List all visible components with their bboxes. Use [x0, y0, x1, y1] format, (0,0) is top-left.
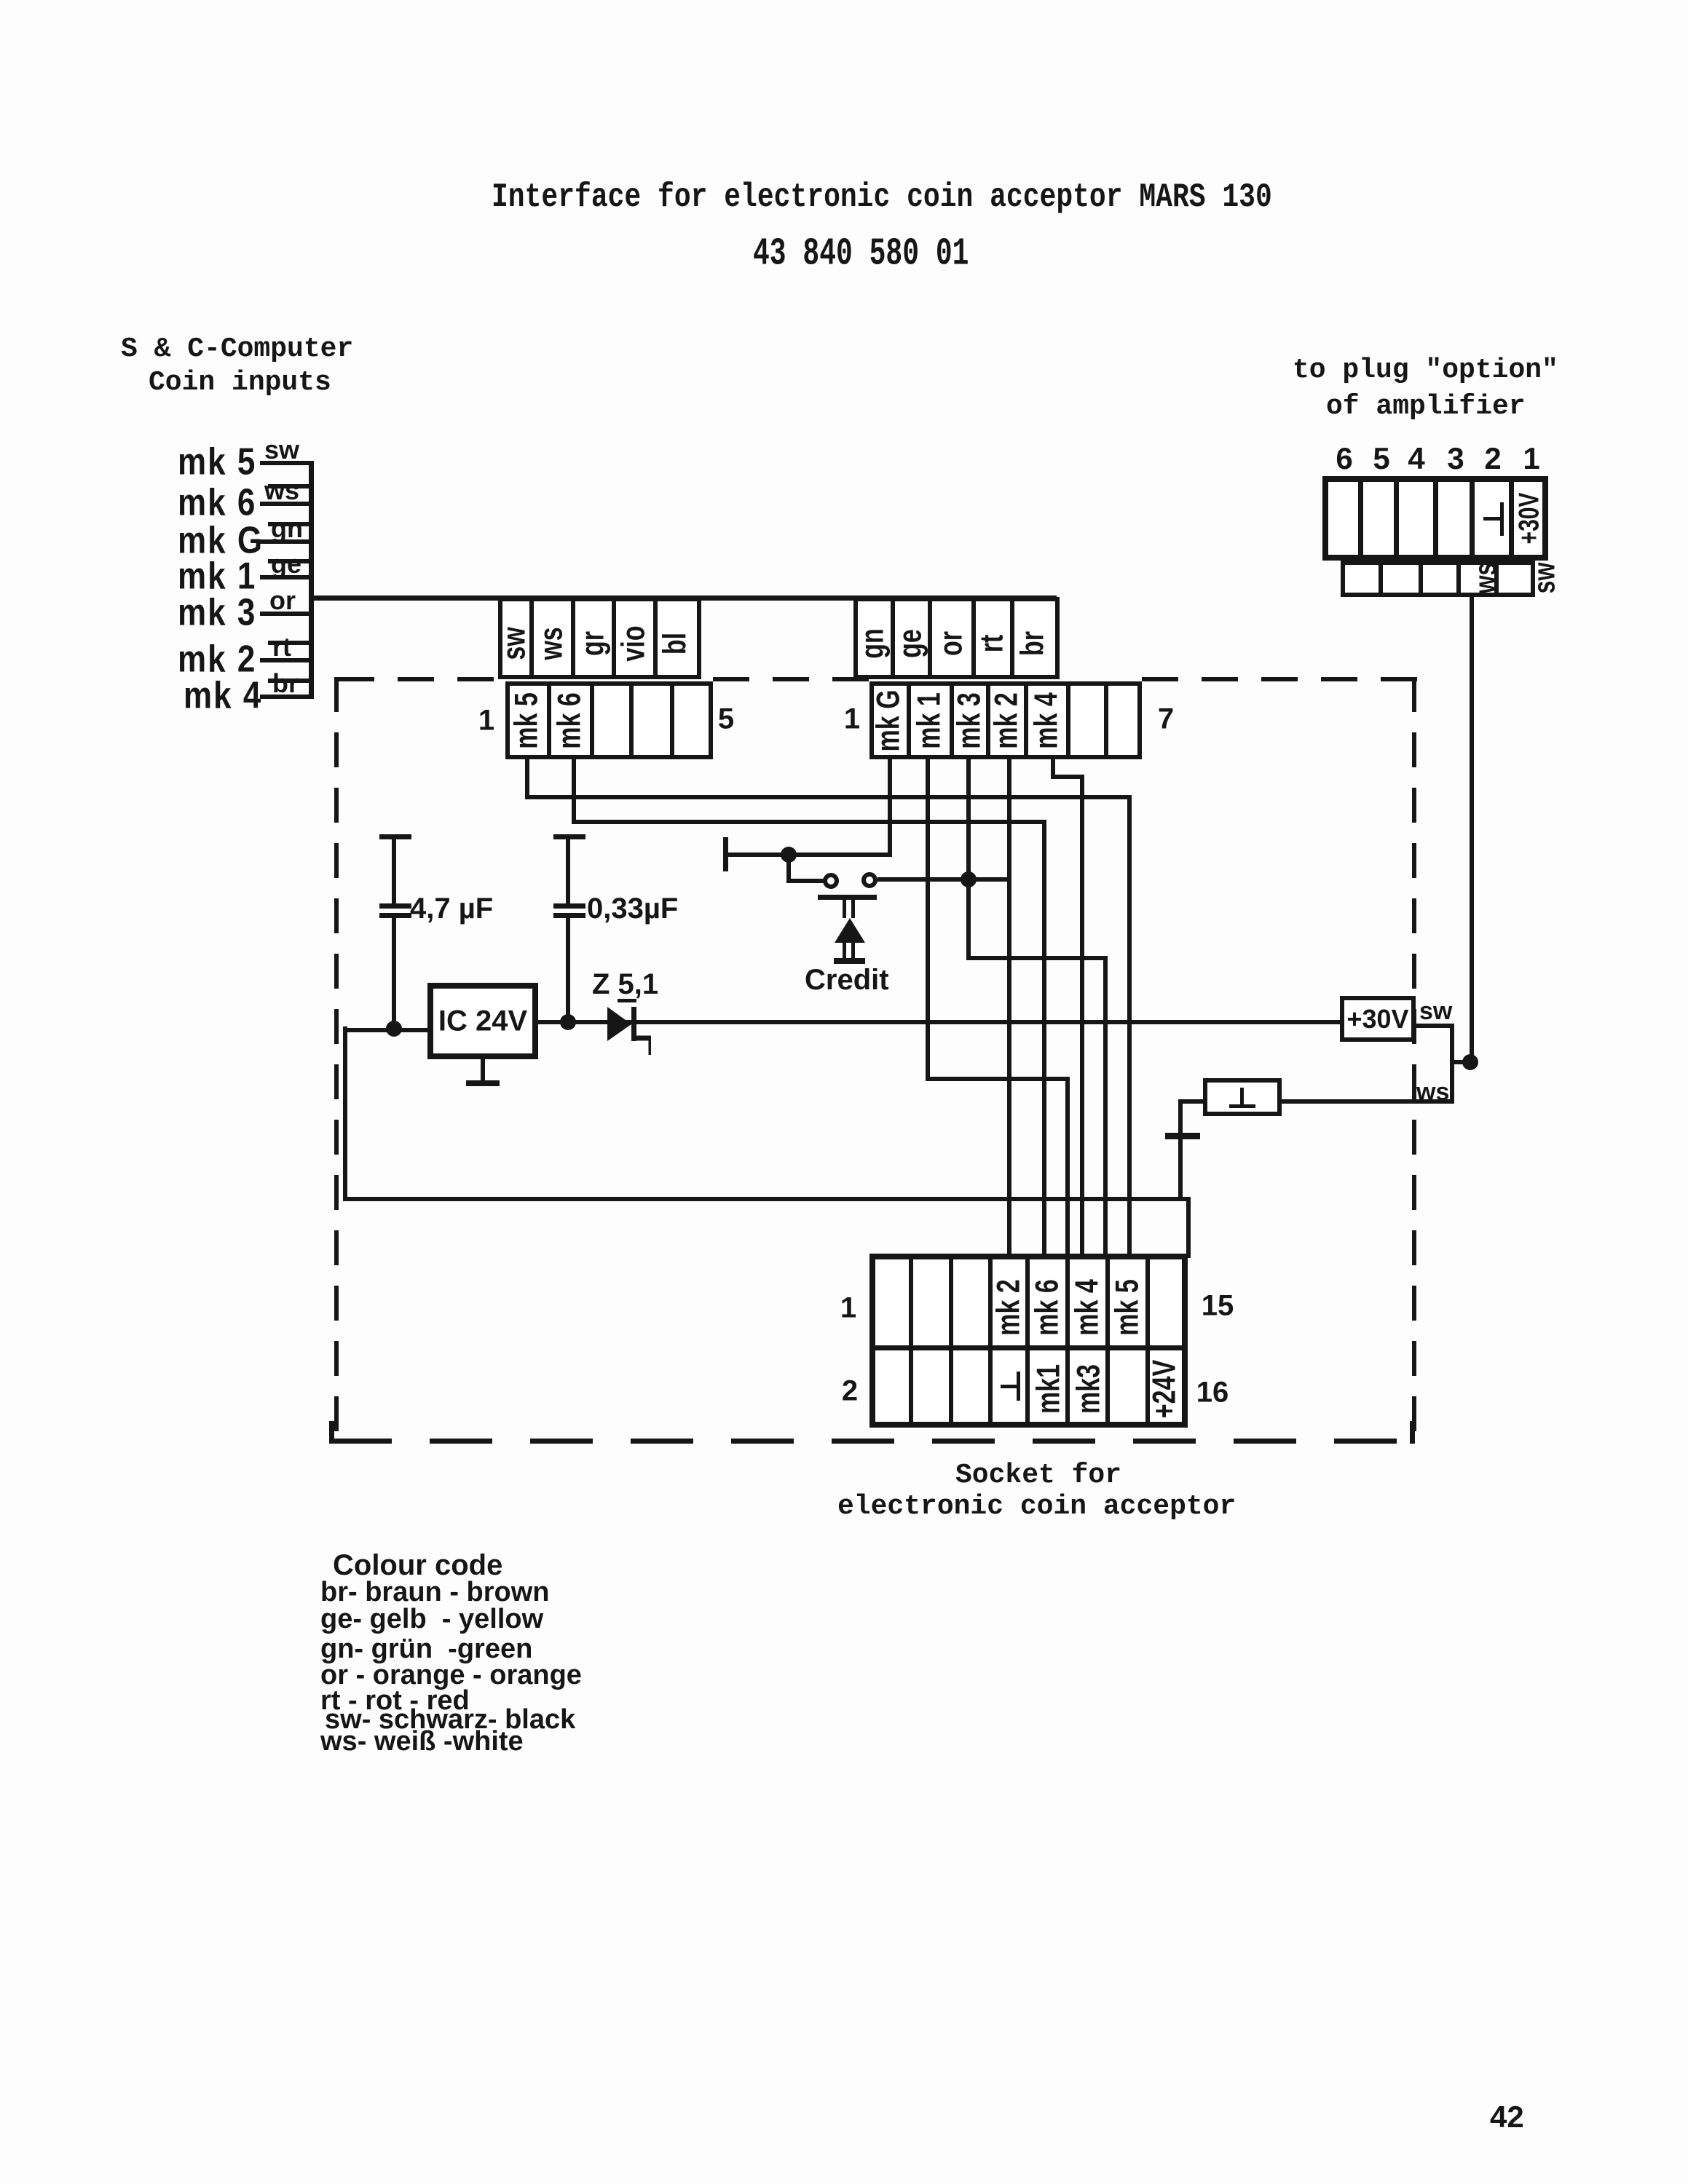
socket label +24V rotated — [1147, 1360, 1184, 1418]
socket column wall 7 — [1105, 1254, 1110, 1428]
ladder cell top ge — [268, 559, 313, 563]
connector X1 mk wall 5 — [670, 681, 674, 759]
connector X2 colour cell wall 2 — [891, 597, 895, 679]
wire mk6 vertical below X1 — [572, 758, 576, 824]
label mk 3 rotated — [952, 692, 989, 749]
junction to plug — [1462, 1054, 1478, 1070]
socket pin 1 — [840, 1292, 856, 1325]
code ws — [320, 1726, 524, 1757]
wire mk3 down to socket — [1103, 956, 1108, 1256]
label vio rotated — [616, 625, 653, 661]
plug lower wall 3 — [1419, 561, 1423, 597]
socket label mk1 rotated — [1031, 1364, 1068, 1414]
label ws rotated on plug — [1468, 563, 1503, 594]
label mk G rotated — [871, 689, 908, 751]
connector X1 mk wall 3 — [590, 681, 594, 759]
label mk 1 — [178, 555, 256, 598]
wire mk6 horizontal run — [572, 820, 1046, 824]
label sw — [1419, 997, 1452, 1026]
code sw — [325, 1704, 575, 1736]
junction C1 on rail — [386, 1021, 402, 1037]
wire credit branch down — [786, 852, 791, 883]
plug number 2 — [1484, 441, 1501, 476]
capacitor C2 plate 1 — [553, 903, 585, 909]
connector X2 colour cells — [853, 597, 1060, 679]
wire mk4 horizontal jog — [1051, 775, 1084, 779]
socket label ground rotated stem — [1001, 1385, 1019, 1388]
contact circle right — [861, 872, 877, 888]
capacitor C1 plate 2 — [379, 913, 411, 918]
switch actuator bar — [818, 895, 877, 900]
code ge — [320, 1604, 543, 1635]
connector X1 colour cells background — [498, 597, 701, 679]
wire loop to socket right edge — [1186, 1197, 1191, 1258]
contact circle left — [823, 873, 839, 889]
heading of amplifier — [1326, 391, 1526, 422]
capacitor C1 bottom lead — [392, 918, 396, 1031]
ladder cell top ws — [268, 484, 313, 488]
capacitor C1 plate 1 — [379, 903, 411, 909]
connector X1 colour cell wall 4 — [612, 597, 616, 679]
credit arrow triangle — [835, 918, 865, 943]
plug lower row — [1341, 561, 1535, 597]
plug number 6 — [1336, 441, 1352, 476]
label IC 24V — [438, 1005, 527, 1038]
code br — [320, 1577, 550, 1608]
lower stem right — [851, 943, 855, 960]
connector X1 colour cell wall 5 — [653, 597, 658, 679]
wire rail into IC — [343, 1028, 432, 1032]
plug lower wall 5 — [1494, 561, 1499, 597]
wire mk1 horizontal jog — [926, 1077, 1070, 1081]
pin number 7 of X2 — [1158, 703, 1174, 736]
ground symbol in box bar — [1229, 1104, 1255, 1108]
wire credit branch to contact — [786, 879, 824, 883]
socket label mk3 rotated — [1071, 1364, 1108, 1414]
code or — [320, 1660, 582, 1691]
label +30V — [1346, 1004, 1408, 1034]
label ws rotated — [534, 627, 571, 660]
wire mk3 vertical below X2 — [966, 758, 971, 960]
actuator stem right — [851, 900, 855, 918]
plug lower wall 2 — [1379, 561, 1383, 597]
label rt rotated — [974, 635, 1011, 653]
wire from right contact — [877, 877, 1011, 882]
socket column wall 5 — [1025, 1254, 1030, 1428]
dashed border bottom edge — [329, 1439, 1414, 1444]
wire mkG vertical below X2 — [888, 758, 892, 857]
label br rotated — [1015, 631, 1052, 656]
plug pin1 label +30V rotated — [1514, 493, 1546, 545]
wire color label sw — [264, 435, 299, 465]
ladder row line mk2/rt — [260, 658, 313, 662]
plug cell wall 6 — [1509, 476, 1514, 561]
dashed border bottom-right corner tick — [1410, 1421, 1415, 1444]
wire color label or — [269, 585, 296, 616]
label 0,33 uF — [587, 893, 678, 925]
plug number 4 — [1408, 441, 1424, 476]
caption electronic coin acceptor — [837, 1491, 1236, 1522]
socket column wall 2 — [909, 1254, 913, 1428]
capacitor C2 top bar — [553, 834, 585, 839]
code gn — [320, 1634, 532, 1665]
plug main box — [1322, 476, 1548, 561]
label mk 5 — [178, 441, 256, 484]
dashed border top segment 2 — [713, 677, 871, 681]
ground reference box — [1203, 1078, 1282, 1116]
wire loop bottom rail — [343, 1197, 1191, 1201]
label gn rotated — [855, 628, 892, 659]
plug pin2 ground symbol bar — [1500, 502, 1504, 536]
connector X2 mk wall 5 — [1024, 681, 1028, 759]
title line 1 — [492, 178, 1272, 216]
socket label mk 4 rotated — [1070, 1279, 1107, 1336]
label mk G — [178, 520, 264, 563]
label mk 4 rotated — [1029, 692, 1066, 749]
ladder cell top br — [268, 678, 313, 683]
heading S & C-Computer — [121, 333, 353, 365]
connector X2 colour cell wall 4 — [971, 597, 976, 679]
wire mk5 vertical below X1 — [525, 758, 529, 799]
socket pin 16 — [1196, 1377, 1229, 1409]
wire color label gn — [271, 513, 303, 544]
wire mk1 vertical below X2 — [926, 758, 930, 1081]
heading to plug "option" — [1293, 355, 1558, 386]
socket label mk 6 rotated — [1030, 1279, 1067, 1336]
junction C2 on rail — [560, 1014, 576, 1030]
label Z 5,1 — [592, 968, 658, 1001]
wire color label rt — [272, 632, 291, 662]
title line 2 — [753, 232, 969, 276]
connector X2 mk wall 2 — [907, 681, 911, 759]
connector X2 lower mk row — [869, 681, 1142, 759]
underline of 5 — [618, 999, 636, 1002]
label mk 2 — [178, 638, 256, 681]
regulator box IC 24V — [427, 983, 538, 1059]
plug number 3 — [1447, 441, 1464, 476]
plug cell wall 5 — [1470, 476, 1475, 561]
colour code title — [333, 1549, 502, 1582]
wire color label ge — [271, 549, 301, 579]
socket column wall 6 — [1065, 1254, 1070, 1428]
wire from plug option down — [1470, 593, 1474, 1062]
label mk 3 — [178, 592, 256, 635]
wire color label ws — [264, 475, 299, 506]
wire mk5 down to socket — [1127, 795, 1132, 1256]
pin number 1 of X2 — [844, 703, 860, 736]
wire color label br — [272, 668, 299, 699]
wire mk4 vertical below X2 — [1051, 758, 1055, 779]
connector X2 mk wall 4 — [986, 681, 990, 759]
plug cell wall 3 — [1394, 476, 1399, 561]
wire from ground box left — [1178, 1099, 1207, 1104]
label Credit — [805, 964, 889, 997]
socket column wall 4 — [988, 1254, 993, 1428]
wire mk4 down to socket — [1080, 775, 1084, 1256]
ground bar — [1165, 1133, 1200, 1139]
code rt — [320, 1685, 470, 1717]
wire ground stem vertical — [1178, 1099, 1183, 1201]
socket label ground rotated bar — [1017, 1372, 1020, 1401]
capacitor C1 top bar — [379, 834, 411, 839]
label mk 4 — [184, 675, 262, 718]
socket row divider — [869, 1345, 1188, 1350]
label ws — [1416, 1078, 1449, 1107]
pin number 5 of X1 — [718, 703, 734, 736]
connector X1 colour cell wall 3 — [571, 597, 575, 679]
label mk 2 rotated — [989, 692, 1026, 749]
label mk 1 rotated — [912, 692, 949, 749]
dashed border top segment 1 — [338, 677, 500, 681]
wire ws to ground box — [1279, 1099, 1454, 1104]
dashed border left edge — [334, 677, 339, 1443]
label mk 6 — [178, 482, 256, 525]
label or rotated — [934, 631, 971, 656]
IC ground stem — [481, 1059, 485, 1083]
caption Socket for — [955, 1460, 1121, 1491]
junction on mk3 wire — [961, 871, 977, 887]
wire rail from IC to +30V box — [538, 1020, 1342, 1024]
junction credit branch — [781, 847, 797, 863]
connector X1 lower mk row — [505, 681, 713, 759]
wire mk3 horizontal jog — [966, 956, 1108, 960]
plug cell wall 2 — [1358, 476, 1363, 561]
page number 42 — [1490, 2100, 1524, 2134]
main horizontal bus wire to connectors — [309, 596, 1057, 601]
label mk 5 rotated — [509, 692, 546, 749]
connector X1 colour cell wall 2 — [529, 597, 534, 679]
connector X2 mk wall 6 — [1066, 681, 1070, 759]
zener diode Z5,1 triangle — [607, 1007, 651, 1058]
ladder row line mk5/sw — [260, 461, 313, 465]
wire mk5 horizontal run — [525, 795, 1132, 799]
label gr rotated — [575, 631, 612, 656]
heading Coin inputs — [149, 367, 331, 398]
IC ground bar — [466, 1080, 500, 1086]
label bl rotated — [658, 633, 695, 654]
plug lower wall 4 — [1456, 561, 1461, 597]
pin number 1 of X1 — [478, 705, 494, 737]
label mk 6 rotated — [552, 692, 589, 749]
actuator stem left — [843, 900, 846, 918]
credit bottom bar — [834, 958, 865, 964]
ladder row line mk6/ws — [260, 502, 313, 506]
wire loop left vertical — [343, 1026, 347, 1201]
wire from +30V box right — [1413, 1024, 1454, 1028]
wire mkG horizontal to credit — [725, 852, 892, 857]
socket label mk 5 rotated — [1110, 1279, 1147, 1336]
capacitor C2 top lead — [566, 837, 570, 906]
wire mk2 vertical to socket — [1007, 758, 1011, 1256]
ladder row line mk3/or — [260, 612, 313, 616]
label sw rotated — [497, 627, 534, 660]
connector X2 mk wall 3 — [950, 681, 954, 759]
wire stub to plug wire — [1450, 1060, 1475, 1064]
socket box — [869, 1254, 1188, 1428]
socket label mk 2 rotated — [991, 1279, 1028, 1336]
dashed border bottom-left corner tick — [329, 1421, 334, 1444]
box +30V — [1340, 996, 1416, 1042]
credit terminal bar — [723, 837, 728, 871]
ladder vertical bus — [309, 461, 314, 699]
capacitor C1 top lead — [392, 837, 396, 906]
socket column wall 3 — [949, 1254, 953, 1428]
connector X2 mk wall 7 — [1104, 681, 1108, 759]
socket pin 2 — [842, 1375, 858, 1408]
dashed border top segment 3 — [1142, 677, 1417, 681]
ladder row line mk1/ge — [260, 575, 313, 579]
ground symbol in box stem — [1240, 1088, 1244, 1107]
plug cell wall 4 — [1433, 476, 1438, 561]
socket column wall 8 — [1145, 1254, 1150, 1428]
wire step down — [1450, 1024, 1454, 1104]
plug pin2 ground symbol stem — [1483, 517, 1502, 521]
label sw rotated right of plug — [1527, 563, 1562, 594]
connector X1 mk wall 2 — [547, 681, 551, 759]
wire mk1 down to socket — [1065, 1077, 1070, 1256]
ladder cell top rt — [268, 641, 313, 645]
dashed border right edge — [1412, 677, 1416, 1441]
lower stem left — [843, 943, 846, 960]
connector X1 mk wall 4 — [629, 681, 634, 759]
connector X2 colour cell wall 3 — [928, 597, 932, 679]
plug number 5 — [1373, 441, 1389, 476]
label 4,7 uF — [410, 893, 493, 925]
connector X2 colour cell wall 5 — [1010, 597, 1014, 679]
plug number 1 — [1523, 441, 1539, 476]
wire mk6 down to socket — [1042, 820, 1046, 1256]
capacitor C2 plate 2 — [553, 913, 585, 918]
socket pin 15 — [1202, 1290, 1234, 1323]
capacitor C2 bottom lead — [566, 918, 570, 1024]
ladder row line mkG/gn — [260, 539, 313, 544]
ladder row line mk4/br — [260, 695, 313, 699]
label ge rotated — [893, 629, 930, 658]
ladder cell top gn — [268, 522, 313, 526]
